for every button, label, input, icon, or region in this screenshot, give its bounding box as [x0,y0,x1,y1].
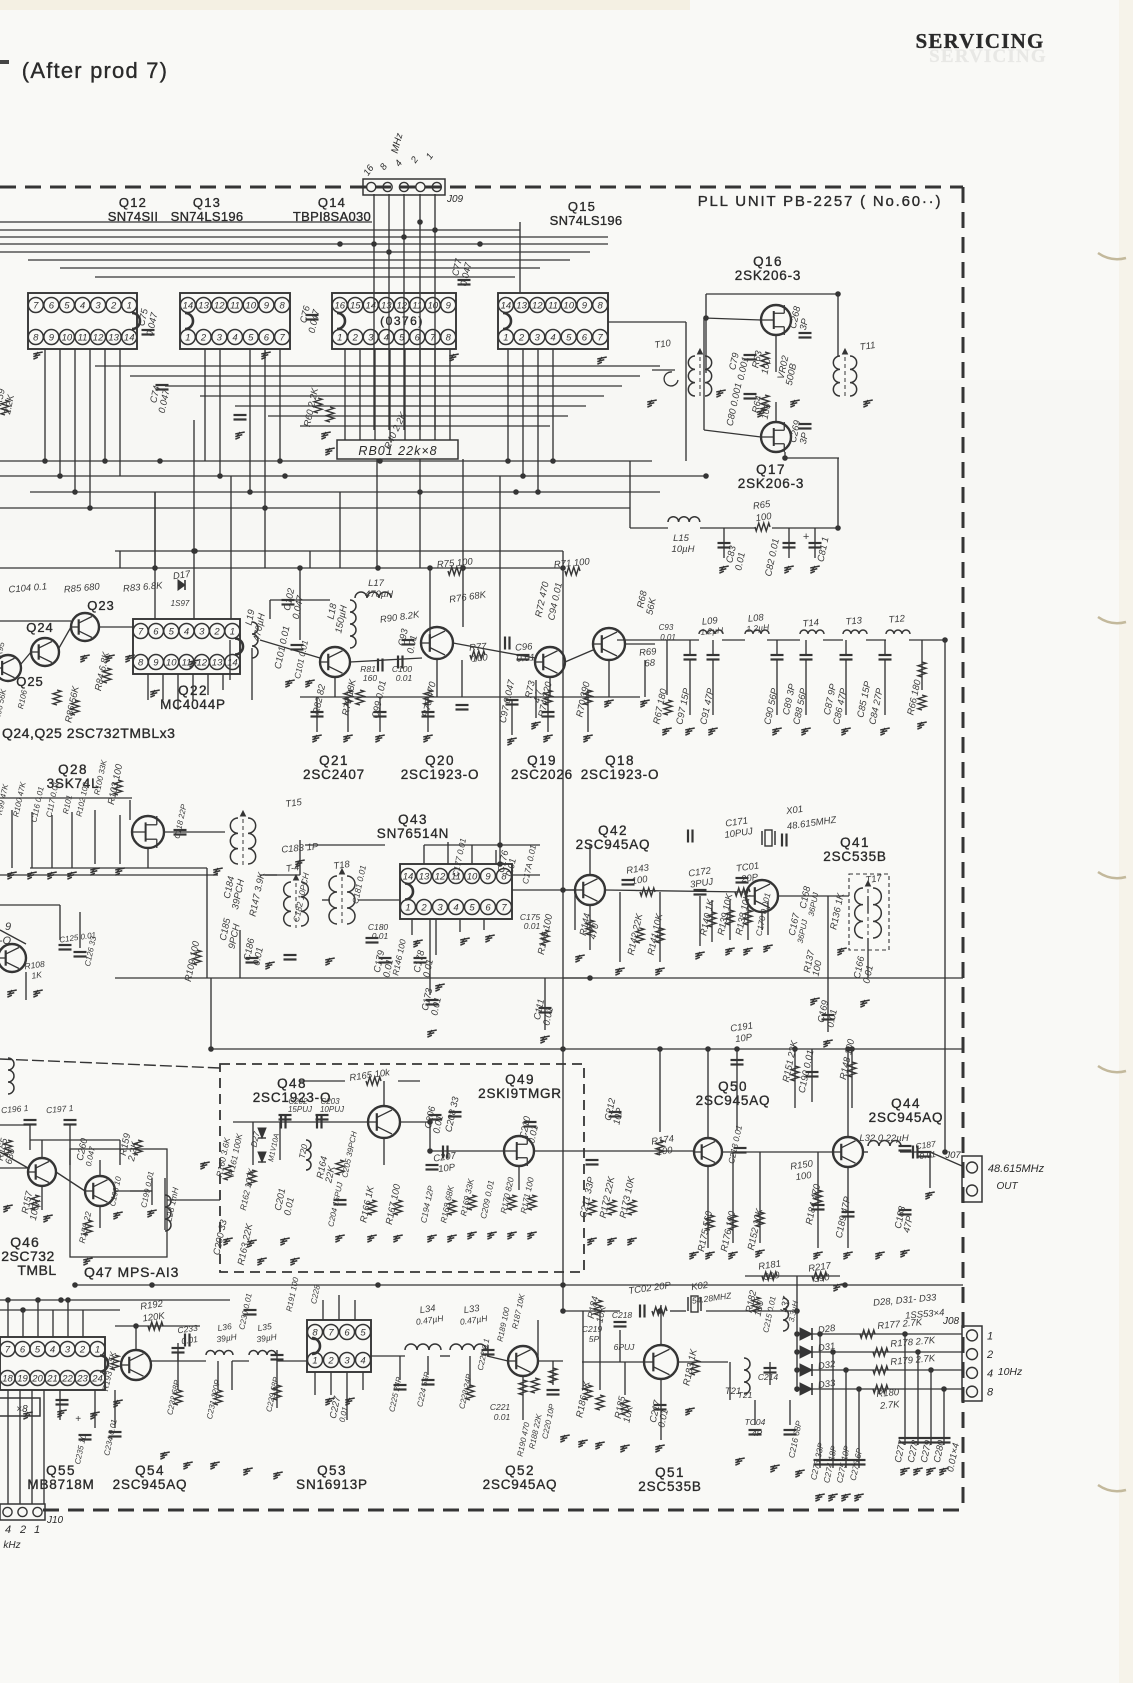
svg-text:Q47 MPS-AI3: Q47 MPS-AI3 [84,1264,179,1280]
svg-text:Q53: Q53 [317,1463,347,1478]
svg-text:Q43: Q43 [398,812,428,827]
svg-text:13: 13 [212,658,223,669]
svg-text:10: 10 [563,301,574,312]
svg-text:PLL UNIT PB-2257 ( No.60··: PLL UNIT PB-2257 ( No.60··) [698,193,943,210]
svg-text:Q28: Q28 [58,762,88,777]
svg-text:2SC1923-O: 2SC1923-O [401,767,480,782]
svg-text:+: + [803,531,810,543]
svg-text:68: 68 [644,658,656,670]
svg-text:L32 0.22µH: L32 0.22µH [859,1133,908,1144]
svg-text:4: 4 [5,1524,11,1536]
svg-text:0.01: 0.01 [660,633,676,642]
svg-text:SN76514N: SN76514N [377,826,449,841]
svg-text:Q42: Q42 [598,823,628,838]
svg-text:T13: T13 [845,615,863,627]
svg-text:Q21: Q21 [319,753,349,768]
svg-text:22: 22 [61,1374,73,1385]
svg-text:T18: T18 [333,859,351,872]
svg-text:T11: T11 [859,340,876,353]
svg-text:TMBL: TMBL [17,1262,56,1278]
svg-text:14: 14 [501,301,512,312]
svg-text:SN74LS196: SN74LS196 [550,213,623,228]
svg-text:0.01: 0.01 [516,652,535,665]
svg-text:2: 2 [200,333,207,344]
svg-text:9: 9 [49,333,55,344]
svg-text:2SC945AQ: 2SC945AQ [696,1093,771,1108]
svg-text:kHz: kHz [3,1540,20,1551]
svg-text:1: 1 [185,333,190,344]
svg-text:2SK206-3: 2SK206-3 [735,268,801,283]
svg-text:TC04: TC04 [745,1417,766,1427]
svg-text:R180: R180 [876,1387,900,1400]
svg-text:2SC945AQ: 2SC945AQ [113,1477,188,1492]
svg-text:2: 2 [352,333,359,344]
svg-text:9: 9 [446,301,452,312]
svg-text:10: 10 [467,872,478,883]
svg-text:Q24: Q24 [26,620,54,635]
svg-text:1S97: 1S97 [171,599,190,608]
svg-text:7: 7 [33,301,39,312]
svg-text:15PUJ: 15PUJ [288,1105,313,1114]
svg-text:3: 3 [437,903,443,914]
svg-text:23: 23 [76,1374,88,1385]
svg-text:100: 100 [656,1145,674,1158]
svg-text:3: 3 [95,301,101,312]
svg-text:14: 14 [183,301,194,312]
svg-text:2: 2 [213,627,220,638]
svg-text:Q17: Q17 [756,462,786,477]
svg-text:7: 7 [279,333,285,344]
svg-text:13: 13 [108,333,119,344]
svg-text:2: 2 [79,1345,86,1356]
svg-text:1: 1 [127,301,132,312]
svg-text:7: 7 [501,903,507,914]
svg-text:(After prod 7): (After prod 7) [22,58,168,83]
svg-text:1: 1 [34,1524,40,1536]
svg-text:Q25: Q25 [16,674,44,689]
svg-text:10: 10 [62,333,73,344]
svg-text:1.2µH: 1.2µH [746,622,770,634]
svg-text:Q18: Q18 [605,753,635,768]
svg-text:7: 7 [138,627,144,638]
svg-text:8: 8 [597,301,603,312]
svg-text:470µH: 470µH [365,589,393,600]
svg-text:160: 160 [363,673,377,683]
svg-text:L17: L17 [368,578,385,589]
svg-text:C221: C221 [490,1402,511,1412]
svg-text:5: 5 [566,333,572,344]
svg-text:0.01: 0.01 [494,1412,511,1422]
svg-text:L35: L35 [257,1321,273,1333]
svg-text:1: 1 [405,903,410,914]
svg-text:RB01 22k×8: RB01 22k×8 [358,444,437,458]
svg-text:10: 10 [427,301,438,312]
svg-text:16: 16 [334,301,345,312]
svg-text:2SK206-3: 2SK206-3 [738,476,804,491]
svg-text:7: 7 [5,1345,11,1356]
svg-text:Q52: Q52 [505,1463,535,1478]
svg-text:14: 14 [403,872,414,883]
svg-text:4: 4 [987,1368,993,1380]
svg-text:L15: L15 [673,533,690,544]
svg-text:13: 13 [381,301,392,312]
svg-text:9: 9 [153,658,159,669]
svg-text:2.7K: 2.7K [879,1399,901,1412]
svg-text:6: 6 [485,903,491,914]
svg-text:2: 2 [420,903,427,914]
svg-text:0.01: 0.01 [524,921,541,931]
svg-text:2: 2 [518,333,525,344]
svg-text:6: 6 [582,333,588,344]
svg-text:Q16: Q16 [753,254,783,269]
svg-text:5: 5 [360,1328,366,1339]
svg-text:C219: C219 [582,1324,603,1334]
svg-text:390: 390 [813,1272,831,1285]
svg-text:6PUJ: 6PUJ [614,1342,636,1352]
svg-text:8: 8 [33,333,39,344]
svg-text:14: 14 [124,333,135,344]
svg-text:C218: C218 [612,1310,633,1320]
svg-text:5: 5 [469,903,475,914]
svg-text:T21: T21 [738,1390,753,1400]
svg-text:Q54: Q54 [135,1463,165,1478]
svg-text:4: 4 [184,627,189,638]
svg-text:5P: 5P [589,1334,600,1344]
svg-text:Q15: Q15 [568,199,596,214]
svg-text:13: 13 [198,301,209,312]
svg-text:Q24,Q25 2SC732TMBLx3: Q24,Q25 2SC732TMBLx3 [2,725,175,741]
svg-text:Q49: Q49 [505,1072,535,1087]
svg-text:T14: T14 [802,617,819,629]
svg-text:11: 11 [412,301,422,312]
svg-text:4: 4 [453,903,458,914]
svg-text:1K: 1K [31,969,43,980]
svg-text:12: 12 [93,333,104,344]
svg-text:4P: 4P [752,1428,763,1438]
svg-text:6: 6 [264,333,270,344]
svg-text:J10: J10 [46,1515,64,1526]
svg-text:1: 1 [503,333,508,344]
svg-text:1: 1 [230,627,235,638]
svg-text:2SC1923-O: 2SC1923-O [581,767,660,782]
svg-text:3: 3 [535,333,541,344]
svg-text:T12: T12 [888,613,906,625]
svg-text:5: 5 [35,1345,41,1356]
svg-text:8: 8 [987,1387,994,1399]
svg-text:2SC945AQ: 2SC945AQ [869,1110,944,1125]
svg-text:Q55: Q55 [46,1463,76,1478]
svg-text:18: 18 [2,1374,13,1385]
svg-text:13: 13 [516,301,527,312]
svg-text:4: 4 [550,333,555,344]
svg-text:Q44: Q44 [891,1096,921,1111]
svg-text:8: 8 [138,658,144,669]
svg-text:4: 4 [50,1345,55,1356]
svg-text:Q23: Q23 [87,598,115,613]
svg-text:2SC945AQ: 2SC945AQ [483,1477,558,1492]
svg-text:12: 12 [435,872,446,883]
svg-text:7: 7 [328,1328,334,1339]
svg-text:9: 9 [485,872,491,883]
svg-text:6: 6 [20,1345,26,1356]
svg-text:2: 2 [19,1524,26,1536]
svg-text:12: 12 [214,301,225,312]
svg-text:Q51: Q51 [655,1465,685,1480]
svg-text:1: 1 [312,1356,317,1367]
svg-text:1.2µH: 1.2µH [700,625,724,637]
svg-text:9: 9 [582,301,588,312]
svg-text:10PUJ: 10PUJ [320,1105,345,1114]
svg-text:4: 4 [232,333,237,344]
svg-text:3: 3 [199,627,205,638]
svg-text:T15: T15 [285,797,303,810]
svg-text:2SC535B: 2SC535B [638,1479,701,1494]
svg-text:7: 7 [597,333,603,344]
svg-text:Q14: Q14 [318,195,346,210]
svg-text:6: 6 [49,301,55,312]
svg-text:12: 12 [396,301,407,312]
svg-text:(0376): (0376) [380,314,424,328]
svg-text:Q20: Q20 [425,753,455,768]
svg-text:5: 5 [64,301,70,312]
svg-text:11: 11 [230,301,240,312]
svg-text:21: 21 [46,1374,58,1385]
svg-text:Q12: Q12 [119,195,147,210]
svg-text:11: 11 [548,301,558,312]
svg-text:2SKI9TMGR: 2SKI9TMGR [478,1086,562,1101]
svg-text:Q50: Q50 [718,1079,748,1094]
svg-text:+: + [75,1414,81,1425]
svg-text:3: 3 [217,333,223,344]
svg-text:12: 12 [532,301,543,312]
svg-text:2: 2 [327,1356,334,1367]
svg-text:11: 11 [78,333,88,344]
svg-text:Q48: Q48 [277,1076,307,1091]
svg-text:9: 9 [264,301,270,312]
svg-text:10: 10 [245,301,256,312]
svg-text:Q41: Q41 [840,835,870,850]
svg-text:100: 100 [795,1170,813,1183]
svg-text:L36: L36 [217,1321,233,1333]
svg-text:1: 1 [337,333,342,344]
svg-text:13: 13 [419,872,430,883]
svg-text:100: 100 [631,874,649,887]
svg-text:8: 8 [446,333,452,344]
svg-text:10µH: 10µH [672,544,695,555]
svg-text:4: 4 [384,333,389,344]
svg-text:T10: T10 [654,338,672,351]
svg-text:C214: C214 [758,1372,779,1382]
svg-text:-O: -O [0,935,12,947]
svg-text:1: 1 [987,1330,993,1342]
svg-text:4: 4 [80,301,85,312]
svg-text:3: 3 [368,333,374,344]
svg-text:Q13: Q13 [193,195,221,210]
svg-text:100: 100 [471,652,488,664]
svg-text:5: 5 [248,333,254,344]
svg-text:0.01: 0.01 [396,673,413,683]
svg-text:0.01: 0.01 [372,931,389,941]
svg-text:2SC535B: 2SC535B [823,849,886,864]
svg-text:15: 15 [350,301,361,312]
svg-text:9: 9 [5,921,11,933]
svg-text:4: 4 [360,1356,365,1367]
svg-text:2: 2 [110,301,117,312]
svg-text:1: 1 [95,1345,100,1356]
svg-text:C93: C93 [659,623,674,632]
svg-text:MB8718M: MB8718M [27,1477,94,1492]
svg-text:OUT: OUT [996,1181,1018,1192]
svg-text:10: 10 [166,658,177,669]
svg-text:J09: J09 [446,194,464,205]
svg-text:SERVICING: SERVICING [929,46,1047,67]
svg-text:12: 12 [196,658,207,669]
svg-text:3: 3 [65,1345,71,1356]
svg-text:2: 2 [986,1349,993,1361]
svg-text:2SC945AQ: 2SC945AQ [576,837,651,852]
svg-text:20: 20 [31,1374,43,1385]
svg-text:48.615MHz: 48.615MHz [988,1163,1045,1175]
svg-text:10Hz: 10Hz [998,1366,1023,1378]
svg-text:Q19: Q19 [527,753,557,768]
svg-text:100: 100 [755,511,773,524]
svg-text:2SC2407: 2SC2407 [303,767,365,782]
svg-text:T17: T17 [865,873,883,886]
svg-text:5: 5 [169,627,175,638]
svg-text:14: 14 [227,658,238,669]
svg-text:SN16913P: SN16913P [296,1477,368,1492]
svg-text:390: 390 [763,1270,781,1283]
svg-text:3: 3 [344,1356,350,1367]
svg-text:19: 19 [17,1374,28,1385]
svg-text:6: 6 [344,1328,350,1339]
svg-text:6: 6 [153,627,159,638]
svg-text:R69: R69 [639,646,658,659]
svg-text:8: 8 [279,301,285,312]
